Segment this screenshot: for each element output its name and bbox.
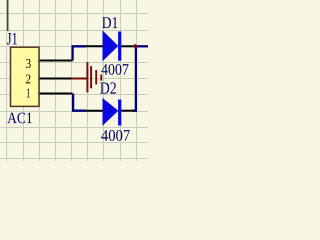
wire junction to right edge [135,45,148,47]
pin 2 of J1 [40,78,72,80]
pin 3 of J1 [40,60,73,62]
ground lead (power port) [72,78,87,80]
wire pin1 to D2 anode [73,94,86,111]
diode D1 cathode bar [118,32,121,61]
diode D2 cathode pin [121,110,134,112]
label 4007 for D1 [101,64,128,75]
label D1 designator [102,17,117,28]
label AC1 comment [7,113,32,124]
ground bar 4 [100,74,102,80]
pin number 2 [26,75,30,84]
junction node [133,44,138,49]
ground bar 2 [90,66,92,88]
diode D2 triangle [103,99,118,125]
wire (cropped vertical stub at left edge) [7,0,9,31]
pin number 3 [26,59,31,68]
diode D2 anode pin [86,110,103,112]
ground bar 3 [95,70,97,84]
diode D2 cathode bar [118,100,121,126]
ground bar 1 [86,62,88,92]
wire pin3 to D1 anode [73,46,87,60]
wire junction down to D2 cathode [133,45,136,111]
diode D1 anode pin [86,45,103,47]
pin 1 of J1 [40,93,73,95]
label J1 designator [7,33,17,45]
label D2 designator [100,82,116,93]
connector J1 body [11,47,40,106]
pin number 1 [27,89,30,98]
diode D1 triangle [103,31,118,60]
background sheet [0,0,148,161]
label 4007 for D2 [101,130,130,141]
diode D1 cathode pin [121,45,133,47]
